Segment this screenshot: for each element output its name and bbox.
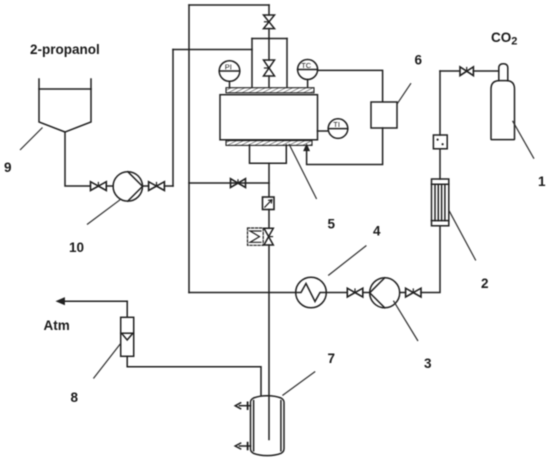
svg-text:2: 2	[481, 276, 489, 291]
svg-text:5: 5	[328, 217, 336, 232]
leader line 4	[328, 246, 366, 276]
gauge PI	[219, 61, 240, 89]
gauge TI	[318, 119, 348, 139]
leader line 10	[87, 200, 120, 225]
wire pump3 to valve	[400, 292, 406, 294]
CO2 cylinder B1 neck	[499, 64, 508, 81]
wire between top valve and manifold	[268, 29, 270, 39]
valve V-hx	[347, 288, 363, 297]
pump P10	[113, 172, 142, 201]
heater H1 dashed box	[248, 228, 264, 245]
svg-text:1: 1	[538, 174, 546, 189]
svg-text:9: 9	[4, 160, 12, 175]
leader line 8	[93, 343, 120, 378]
wire to heater valve	[268, 210, 270, 229]
leader line 6	[397, 83, 411, 104]
wire center pipe from bottom box	[268, 163, 270, 197]
gauge TC	[298, 60, 318, 90]
wire pump10 to valve	[143, 185, 149, 187]
svg-text:PI: PI	[225, 63, 232, 72]
svg-text:10: 10	[69, 240, 84, 255]
wire filter to CO2 line	[439, 71, 441, 135]
vessel U5 bottom flange	[226, 141, 312, 146]
leader line 1	[513, 121, 535, 159]
wire box6 down and return to vessel bottom	[307, 128, 383, 165]
valve V-heater vertical	[264, 228, 273, 245]
wire 2-propanol header to manifold	[173, 49, 252, 51]
separator V7 inner wall left	[253, 401, 255, 451]
svg-text:6: 6	[415, 53, 423, 68]
wire main trunk vertical	[188, 5, 190, 293]
wire top header from trunk to top valve	[189, 4, 269, 6]
wire valve to pump3	[363, 292, 370, 294]
separator V7 dip tube inside	[268, 396, 270, 440]
svg-text:TI: TI	[333, 120, 340, 129]
wire above top valve	[268, 5, 270, 15]
leader line 9	[20, 83, 534, 395]
wire HX to valve	[326, 292, 347, 294]
valve V-pump3	[406, 288, 421, 297]
CO2 cylinder B1 body	[491, 81, 515, 140]
heater H1 coil	[250, 231, 261, 242]
tank T9 rim ticks	[39, 79, 91, 89]
vessel U5 top flange	[226, 88, 314, 93]
box U6	[371, 102, 397, 128]
pump P3	[370, 278, 400, 308]
wire rotameter down and right to separator	[127, 356, 261, 397]
tank T9 body	[39, 89, 91, 132]
separator nozzle bottom	[235, 443, 250, 450]
svg-text:Atm: Atm	[44, 318, 70, 333]
rotameter FI8	[121, 317, 134, 356]
wire manifold left drop	[251, 39, 253, 90]
vessel U5 body	[220, 95, 318, 140]
valve V-top2	[264, 60, 275, 76]
valve V-co2	[460, 67, 473, 76]
vent arrow line	[62, 300, 127, 302]
wire valve to riser	[164, 185, 173, 187]
wire manifold top	[252, 38, 287, 40]
separator nozzle top	[235, 402, 250, 409]
wire manifold middle above valve2	[268, 39, 270, 61]
wire manifold right drop	[286, 39, 288, 90]
wire valve to column riser	[421, 226, 440, 293]
wire CO2 horizontal	[440, 70, 460, 72]
check valve square CV1	[263, 197, 275, 210]
condenser column U2	[432, 179, 449, 226]
wire 2-propanol riser	[172, 50, 174, 187]
svg-text:7: 7	[328, 351, 336, 366]
leader line 5	[289, 144, 317, 199]
vessel U5 bottom box	[250, 145, 287, 163]
filter F1	[433, 135, 447, 149]
valve V-branch	[231, 179, 246, 188]
wire column to filter	[439, 149, 441, 179]
wire valve to cylinder	[473, 70, 498, 72]
valve V-top1	[264, 15, 275, 29]
leader line 2	[449, 210, 476, 260]
valve V-pump10	[149, 182, 165, 191]
wire HX line from trunk	[189, 292, 296, 294]
separator V7 body	[251, 396, 285, 456]
svg-text:8: 8	[71, 390, 79, 405]
vent arrowhead	[57, 298, 65, 305]
svg-text:3: 3	[424, 356, 432, 371]
heat exchanger E4	[296, 277, 327, 308]
arrow into vessel bottom	[304, 145, 309, 151]
leader line 3	[393, 301, 418, 341]
wire branch trunk to center pipe	[189, 182, 269, 184]
wire vent to rotameter	[126, 301, 128, 317]
leader line 7	[282, 372, 315, 396]
svg-text:TC: TC	[301, 61, 312, 70]
wire center pipe down to separator	[268, 245, 270, 440]
wire TC to box 6 loop	[318, 70, 383, 102]
svg-text:4: 4	[373, 224, 381, 239]
separator V7 inner wall right	[280, 401, 282, 451]
wire tank outlet	[65, 132, 90, 186]
wire below valve2 to flange	[268, 76, 270, 89]
wire valve to pump10	[106, 185, 113, 187]
svg-text:2-propanol: 2-propanol	[30, 42, 100, 57]
svg-text:CO2: CO2	[491, 30, 517, 48]
valve V-tank	[91, 182, 107, 191]
